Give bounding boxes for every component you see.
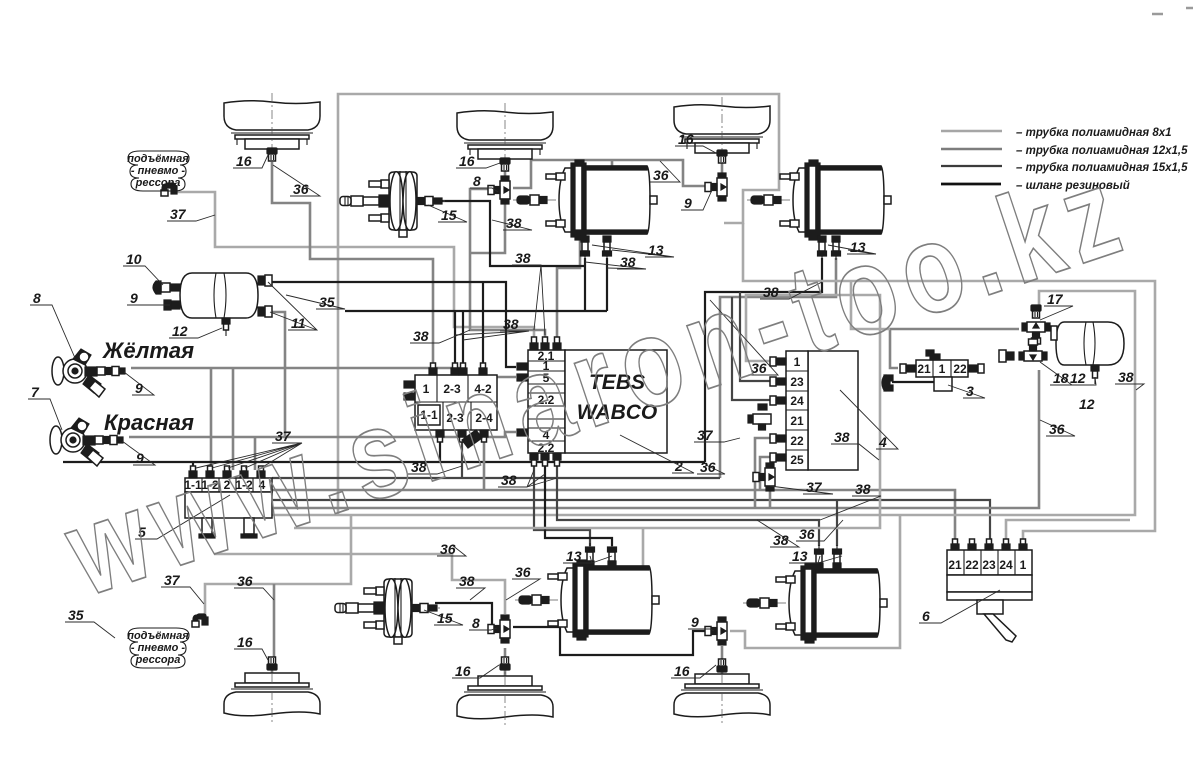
svg-text:рессора: рессора [135, 654, 181, 666]
air bellow bottom-left [224, 657, 320, 723]
wire: chamber C1 port lines [584, 258, 586, 311]
svg-text:38: 38 [773, 532, 789, 548]
callout numbers with leaders [28, 131, 1144, 679]
10 label [123, 251, 163, 285]
wire: top bellow3 stub [721, 162, 724, 174]
drain block 6 [947, 539, 1032, 642]
svg-text:– трубка полиамидная 8х1: – трубка полиамидная 8х1 [1016, 127, 1172, 139]
11 label [268, 282, 317, 331]
svg-text:1: 1 [939, 362, 946, 376]
coupling head yellow (8) [52, 349, 125, 397]
svg-text:- пневмо -: - пневмо - [131, 165, 185, 177]
TEBS WABCO unit 2 [565, 350, 667, 453]
coupling head red (7) [50, 418, 123, 466]
svg-text:36: 36 [440, 541, 456, 557]
wire: block4 port lines [294, 295, 880, 528]
svg-text:37: 37 [697, 427, 714, 443]
wire: light bus y554 to bottom tee8 [214, 554, 505, 614]
wire: tee8 left port down to TEBS strip port [470, 189, 545, 345]
svg-text:16: 16 [455, 663, 471, 679]
air bellow bottom-right [674, 658, 770, 724]
TEBS port strip [517, 337, 565, 466]
svg-text:36: 36 [653, 167, 669, 183]
9 labels [127, 290, 170, 306]
8 labels [30, 290, 75, 358]
svg-text:38: 38 [459, 573, 475, 589]
svg-text:8: 8 [472, 615, 480, 631]
svg-text:16: 16 [237, 634, 253, 650]
svg-text:Жёлтая: Жёлтая [102, 338, 194, 363]
wire: light line to bottom-middle chamber right port [643, 528, 654, 600]
wire: branch down to TEBS strip third top port [557, 160, 612, 345]
tee 9 top [705, 173, 727, 201]
svg-text:9: 9 [691, 614, 699, 630]
fitting 16 top-middle bellow [500, 158, 510, 171]
air bellow bottom-middle [457, 660, 553, 726]
svg-text:35: 35 [319, 294, 335, 310]
svg-text:13: 13 [792, 548, 808, 564]
svg-text:6: 6 [922, 608, 930, 624]
wire: bottom-left bellow feed [273, 584, 276, 657]
2 label [620, 435, 694, 474]
wire: reservoir feed bus y282 to TEBS port 1 [268, 282, 516, 367]
svg-text:18: 18 [1053, 370, 1069, 386]
svg-text:36: 36 [700, 459, 716, 475]
svg-text:1: 1 [1020, 558, 1027, 572]
wire: tee8 bottom stub [470, 203, 505, 253]
svg-text:2: 2 [674, 458, 683, 474]
svg-text:7: 7 [31, 384, 40, 400]
svg-text:22: 22 [790, 434, 804, 448]
wire: light bus y515 to right loop and tee17 [214, 291, 1135, 515]
air bellow top-right [674, 97, 770, 164]
svg-text:9: 9 [684, 195, 692, 211]
tee fitting 17 [1022, 322, 1050, 344]
fitting 16 top-right bellow [717, 150, 727, 163]
wire: tee9 left branch zigzag to TEBS strip [513, 160, 708, 188]
wire: centre manifold bottom ports to buses [439, 432, 441, 462]
reservoir 12 (right) [1051, 322, 1124, 384]
svg-text:37: 37 [806, 479, 823, 495]
wire: tee-to-bellow stubs bottom [504, 648, 507, 658]
spring brake chamber bottom-middle [515, 560, 659, 640]
centre manifold block (1 / 2-3 / 4-2) [404, 363, 497, 448]
svg-text:Красная: Красная [104, 410, 194, 435]
35 labels [286, 294, 345, 310]
36 labels [273, 165, 320, 197]
svg-text:13: 13 [566, 548, 582, 564]
wire: dark bus y500 to block6 [210, 500, 990, 546]
legend lines [941, 130, 1002, 133]
svg-text:38: 38 [503, 316, 519, 332]
13 labels [592, 242, 674, 258]
svg-text:9: 9 [130, 290, 138, 306]
wire: top loop light pipe from left long vertical to tee 9 [338, 94, 779, 516]
wire: manifold5 port stubs [192, 462, 194, 470]
svg-text:8: 8 [473, 173, 481, 189]
svg-text:15: 15 [437, 610, 453, 626]
svg-text:подъёмная: подъёмная [127, 630, 189, 642]
tee 8 top [488, 176, 510, 204]
manifold 5 (bottom left block) [184, 466, 272, 538]
svg-text:38: 38 [620, 254, 636, 270]
svg-text:38: 38 [1118, 369, 1134, 385]
valve 3 [882, 350, 984, 391]
wire: bottom bellow stubs [271, 670, 274, 678]
svg-text:10: 10 [126, 251, 142, 267]
18 label [1040, 362, 1072, 386]
svg-text:21: 21 [948, 558, 962, 572]
svg-text:25: 25 [790, 453, 804, 467]
svg-text:38: 38 [506, 215, 522, 231]
svg-text:12: 12 [172, 323, 188, 339]
17 label [1040, 291, 1073, 320]
wire: dark bus y311 into centre manifold [345, 310, 607, 312]
wire: block6 right entries [1006, 520, 1130, 546]
svg-text:38: 38 [413, 328, 429, 344]
svg-text:24: 24 [999, 558, 1013, 572]
wire: grey bus y508 to right tee18 [210, 370, 1039, 508]
wire: TEBS bottom ports to bottom chambers [534, 461, 590, 546]
svg-text:21: 21 [917, 362, 931, 376]
wire: lift air-spring top bubble pipe [174, 192, 534, 345]
svg-text:35: 35 [68, 607, 84, 623]
svg-text:8: 8 [33, 290, 41, 306]
37 labels [167, 206, 215, 222]
svg-text:13: 13 [648, 242, 664, 258]
svg-text:16: 16 [678, 131, 694, 147]
elbow fitting at top bubble [161, 183, 177, 196]
7 label [28, 384, 62, 430]
spring brake chamber top-left [513, 160, 657, 240]
wire: bottom cross line tee8 right to tee9 left [513, 627, 714, 655]
wire: reservoir2 tee17 line to valve3 [890, 329, 1019, 368]
svg-text:36: 36 [1049, 421, 1065, 437]
reservoir 10 (left small) [153, 273, 272, 336]
svg-text:36: 36 [515, 564, 531, 580]
connector block 4 [748, 351, 858, 491]
fitting 16 bottom-right bellow [717, 659, 727, 672]
svg-text:12: 12 [1070, 370, 1086, 386]
svg-text:15: 15 [441, 207, 457, 223]
svg-text:16: 16 [236, 153, 252, 169]
svg-text:16: 16 [459, 153, 475, 169]
wire: reservoir lower elbow down to red line [268, 312, 285, 437]
svg-text:21: 21 [790, 414, 804, 428]
wire: bottom booster output to tee8 [435, 603, 499, 627]
12 labels [169, 323, 222, 339]
svg-text:38: 38 [834, 429, 850, 445]
booster 15 top [340, 171, 445, 237]
fitting 16 bottom-left bellow [267, 657, 277, 670]
wire: top-left bellow pipe to centre manifold [272, 162, 433, 373]
wire: bottom-left bubble line [205, 516, 351, 619]
svg-text:38: 38 [515, 250, 531, 266]
4 label [840, 390, 898, 450]
booster 15 bottom [335, 578, 440, 644]
svg-text:4: 4 [878, 434, 887, 450]
16 labels [233, 153, 268, 169]
wire: top booster output [440, 201, 585, 266]
fitting 16 top-left bellow [267, 148, 277, 161]
svg-text:36: 36 [237, 573, 253, 589]
svg-text:3: 3 [966, 383, 974, 399]
tee 9 bottom [705, 617, 727, 645]
tee fitting 18 [1019, 339, 1047, 361]
spring brake chamber top-right [747, 160, 891, 240]
3 label [948, 383, 985, 399]
svg-text:рессора: рессора [135, 177, 181, 189]
air bellow top-left [224, 93, 320, 160]
spring brake chamber bottom-right [743, 563, 887, 643]
svg-text:22: 22 [965, 558, 979, 572]
wire: top bellow2 stub [504, 165, 507, 177]
svg-text:подъёмная: подъёмная [127, 153, 189, 165]
svg-text:11: 11 [291, 315, 306, 331]
svg-text:22: 22 [953, 362, 967, 376]
bubble bottom [127, 628, 189, 668]
wire: chamber C2 port lines to verticals [705, 258, 822, 462]
wire: dark bus y478 [272, 477, 720, 479]
elbow fitting at bottom bubble [192, 614, 208, 627]
bubble top: подъёмная пневмо рессора [127, 151, 189, 191]
15 labels [428, 205, 467, 223]
svg-text:24: 24 [790, 394, 804, 408]
svg-text:16: 16 [674, 663, 690, 679]
wire: yellow coupling line [131, 368, 516, 377]
6 label [919, 590, 1000, 624]
svg-text:37: 37 [170, 206, 187, 222]
svg-text:38: 38 [855, 481, 871, 497]
svg-text:36: 36 [799, 526, 815, 542]
wire: grey bus y490 to block6 [272, 490, 955, 546]
tee 8 bottom [488, 615, 510, 643]
fitting 16 bottom-middle bellow [500, 657, 510, 670]
svg-text:36: 36 [293, 181, 309, 197]
air bellow top-middle [457, 103, 553, 170]
wire: red coupling line [129, 432, 516, 437]
wire: bottom right light loop into tee9 [730, 515, 900, 648]
svg-text:12: 12 [1079, 396, 1095, 412]
38 labels [492, 215, 532, 231]
5 label [135, 495, 230, 540]
svg-text:23: 23 [982, 558, 996, 572]
svg-text:- пневмо -: - пневмо - [131, 642, 185, 654]
wire: dark bus y462 [63, 461, 705, 463]
svg-text:9: 9 [135, 380, 143, 396]
